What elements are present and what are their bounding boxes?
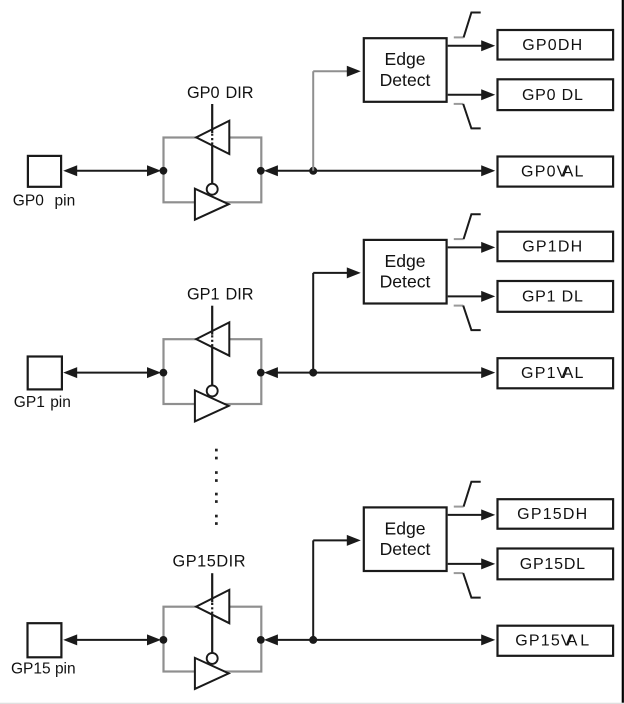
svg-text:GP1DH: GP1DH	[522, 239, 583, 256]
GP15 junction dot left	[160, 636, 168, 644]
register GP15DL	[498, 549, 614, 580]
ellipsis dots (blocks GP2..GP14 omitted)	[215, 449, 218, 525]
GP15 junction node	[309, 636, 317, 644]
GP15 DIR control line	[211, 573, 213, 653]
svg-text:Edge: Edge	[384, 251, 425, 271]
register GP1DL	[498, 281, 614, 312]
GP1 junction dot left	[160, 369, 168, 377]
svg-text:Detect: Detect	[380, 272, 431, 292]
svg-text:GP15DL: GP15DL	[520, 556, 586, 573]
GP1 junction dot right	[257, 369, 265, 377]
register GP0VAL	[498, 157, 614, 187]
GP0 DIR control line	[211, 104, 213, 184]
wire GP15 edge detect -> GP15DL	[448, 558, 496, 569]
GP1 DIR label	[187, 286, 254, 304]
wire GP15 pin <-> buffers (bidirectional)	[63, 634, 161, 645]
register GP15DH	[498, 499, 614, 529]
GP15 edge detect box U	[364, 507, 447, 571]
GP15 DIR label	[173, 553, 247, 571]
GP15 junction dot right	[257, 636, 265, 644]
svg-text:Edge: Edge	[384, 49, 425, 69]
svg-text:DIR: DIR	[226, 286, 254, 304]
GP0 rising edge symbol	[454, 13, 481, 38]
svg-text:DIR: DIR	[226, 84, 254, 102]
svg-text:GP1: GP1	[14, 394, 45, 411]
GP15 input buffer (points left)	[196, 590, 229, 623]
wire GP0 edge detect -> GP0DL	[448, 89, 496, 100]
GP15 edge detect label	[380, 518, 431, 559]
svg-text:pin: pin	[55, 193, 76, 210]
GP0 output buffer (points right)	[195, 189, 229, 220]
svg-text:GP15 pin: GP15 pin	[11, 661, 76, 678]
GP15 pin label	[11, 661, 76, 678]
wire GP1 pin <-> buffers (bidirectional)	[63, 367, 161, 378]
GP0 pin square	[28, 156, 61, 187]
wire GP1 junction -> GP1VAL	[313, 367, 495, 378]
wire GP1 junction -> edge detect	[313, 267, 361, 372]
wire GP15 buffers <- junction	[264, 634, 313, 645]
svg-text:GP15DIR: GP15DIR	[173, 553, 247, 571]
svg-text:Detect: Detect	[380, 70, 431, 90]
GP0 DIR label	[187, 84, 254, 102]
wire GP0 edge detect -> GP0DH	[448, 40, 496, 51]
GP0 edge detect label	[380, 49, 431, 90]
register GP1VAL	[498, 358, 614, 388]
register GP0DH	[498, 30, 614, 60]
svg-text:GP0 DL: GP0 DL	[522, 87, 584, 104]
GP15 falling edge symbol	[454, 573, 481, 598]
svg-text:GP1VAL: GP1VAL	[521, 365, 584, 382]
GP0 junction dot right	[257, 167, 265, 175]
GP15 output-enable inversion bubble	[207, 653, 218, 664]
page border bar (right)	[622, 0, 624, 704]
svg-text:GP0: GP0	[187, 84, 220, 102]
GP1 pin square	[28, 357, 62, 390]
wire GP15 junction -> GP15VAL	[313, 634, 495, 645]
GP1 edge detect label	[380, 251, 431, 292]
GP1 junction node	[309, 369, 317, 377]
svg-text:GP1 DL: GP1 DL	[522, 289, 584, 306]
wire GP15 junction -> edge detect	[313, 535, 361, 640]
wire GP1 edge detect -> GP1DL	[448, 291, 496, 302]
GP0 output-enable inversion bubble	[207, 184, 218, 195]
GP1 falling edge symbol	[454, 306, 481, 331]
GP0 junction node	[309, 167, 317, 175]
wire GP1 buffers <- junction	[264, 367, 313, 378]
GP15 rising edge symbol	[454, 482, 481, 507]
GP0 falling edge symbol	[454, 104, 481, 128]
svg-text:GP1: GP1	[187, 286, 220, 304]
GP0 buffer enclosure box	[164, 138, 262, 203]
GP1 output buffer (points right)	[195, 390, 229, 421]
svg-text:GP0DH: GP0DH	[522, 37, 583, 54]
register GP15VAL	[498, 626, 614, 656]
GP1 input buffer (points left)	[196, 322, 229, 355]
GP0 pin label	[13, 193, 75, 210]
wire GP1 edge detect -> GP1DH	[448, 242, 496, 253]
svg-text:Edge: Edge	[384, 518, 425, 538]
register GP0DL	[498, 79, 614, 110]
GP15 pin square	[28, 623, 62, 657]
wire GP0 buffers <- junction	[264, 165, 313, 176]
faint page bottom edge	[0, 703, 624, 704]
GP0 junction dot left	[160, 167, 168, 175]
svg-text:pin: pin	[50, 394, 71, 411]
GP1 edge detect box U	[364, 240, 447, 304]
svg-text:GP0: GP0	[13, 193, 44, 210]
GP0 edge detect box U	[364, 38, 447, 102]
svg-text:Detect: Detect	[380, 539, 431, 559]
register GP1DH	[498, 232, 614, 262]
GP15 buffer enclosure box	[164, 607, 262, 672]
GP15 output buffer (points right)	[195, 658, 229, 689]
svg-text:GP15DH: GP15DH	[517, 506, 588, 523]
wire GP15 edge detect -> GP15DH	[448, 509, 496, 520]
GP1 pin label	[14, 394, 71, 411]
wire GP0 junction -> GP0VAL	[313, 165, 495, 176]
GP1 output-enable inversion bubble	[207, 385, 218, 396]
GP1 rising edge symbol	[454, 214, 481, 239]
GP0 input buffer (points left)	[196, 121, 229, 154]
GP1 buffer enclosure box	[164, 339, 262, 404]
GP1 DIR control line	[211, 306, 213, 386]
wire GP0 pin <-> buffers (bidirectional)	[63, 165, 161, 176]
wire GP0 junction -> edge detect	[313, 66, 361, 171]
svg-text:GP0VAL: GP0VAL	[521, 163, 584, 180]
